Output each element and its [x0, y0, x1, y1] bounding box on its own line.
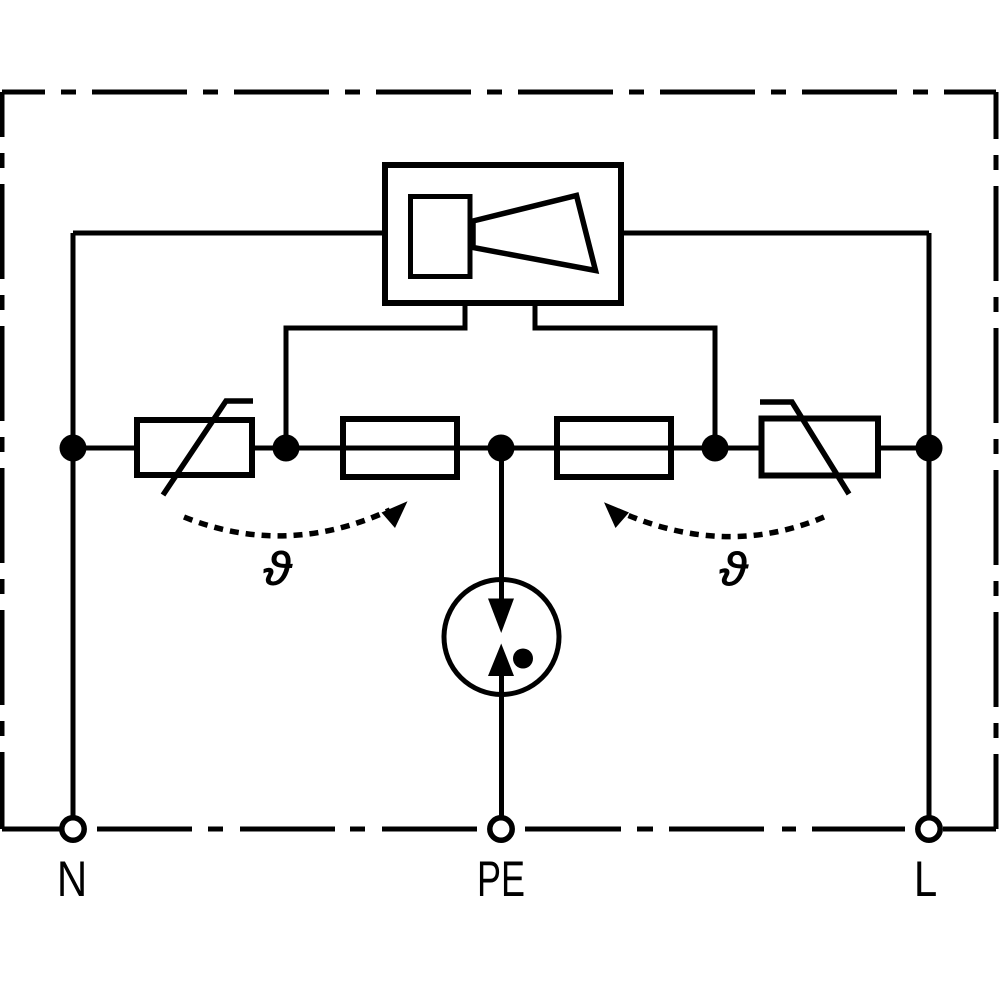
svg-text:ϑ: ϑ — [263, 544, 292, 595]
svg-text:PE: PE — [477, 852, 525, 907]
svg-text:ϑ: ϑ — [719, 544, 748, 595]
svg-text:L: L — [914, 851, 937, 907]
svg-text:N: N — [57, 851, 87, 907]
